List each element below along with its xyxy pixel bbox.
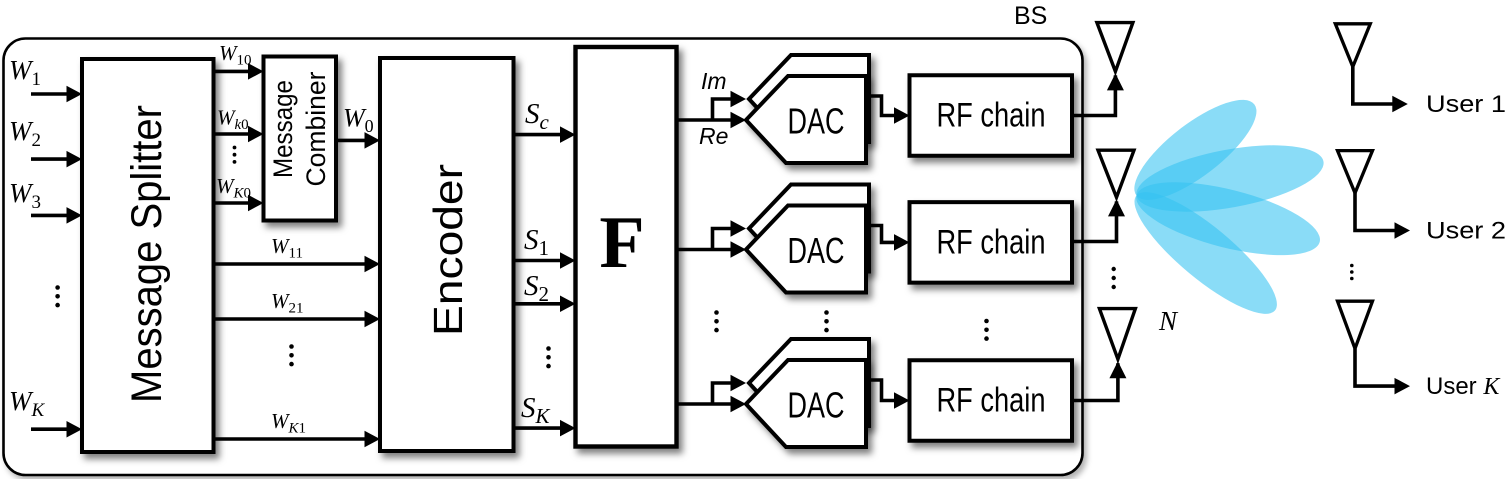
label S_K: [521, 392, 551, 428]
wire W_0 arrow: [336, 132, 380, 149]
svg-text:Combiner: Combiner: [301, 71, 331, 186]
label W_11: [271, 234, 303, 262]
dots DAC column: [824, 310, 829, 332]
svg-text:Re: Re: [699, 123, 728, 149]
wire F to DAC2 Re path: [677, 241, 746, 258]
wire W_21 arrow: [214, 311, 381, 328]
dots splitter-combiner: [233, 146, 237, 164]
svg-text:DAC: DAC: [788, 101, 845, 142]
dots RF chain column: [984, 319, 989, 341]
label W_K1: [271, 409, 306, 437]
dots splitter-encoder: [289, 344, 294, 366]
wire W_K0 arrow: [214, 195, 264, 212]
block Message Combiner: [264, 57, 337, 221]
wire F to DAC3 Im staircase: [713, 375, 747, 404]
label Im: [701, 68, 727, 94]
dots BS antennas: [1112, 267, 1116, 289]
DAC2 back shape: [749, 185, 869, 272]
svg-text:BS: BS: [1014, 2, 1047, 30]
wire RF chain 2 to antenna: [1072, 199, 1125, 241]
block precoder F: [576, 47, 677, 447]
block RF chain 1: [910, 75, 1073, 156]
svg-text:RF chain: RF chain: [937, 382, 1046, 420]
label S_2: [524, 270, 549, 306]
label W_10: [219, 41, 252, 69]
label BS: [1014, 2, 1047, 30]
wire S_2 arrow: [514, 296, 576, 313]
wire W_11 arrow: [214, 256, 381, 273]
svg-text:DAC: DAC: [788, 385, 845, 426]
wire S_c arrow: [514, 126, 576, 143]
user antenna 2: [1338, 151, 1411, 239]
wire F to DAC1 Im staircase: [713, 91, 747, 120]
label S_1: [524, 224, 549, 260]
svg-text:N: N: [1158, 306, 1179, 336]
wire S_K arrow: [514, 420, 576, 437]
label W_K: [9, 386, 46, 421]
label User 2: [1426, 218, 1506, 245]
wire W_k0 arrow: [214, 126, 264, 143]
wire input W_K arrow: [31, 421, 82, 438]
dots users: [1350, 264, 1354, 281]
wire F to DAC2 Im staircase: [713, 220, 747, 249]
label W_k0: [217, 106, 249, 134]
svg-text:RF chain: RF chain: [937, 97, 1046, 135]
label W_2: [9, 116, 41, 151]
DAC1 front shape: [746, 76, 866, 163]
dots encoder-F: [546, 346, 551, 368]
svg-text:F: F: [599, 202, 644, 284]
user antenna K: [1338, 301, 1411, 394]
label W_21: [271, 289, 304, 317]
wire W_K1 arrow: [214, 431, 381, 448]
BS boundary rounded rectangle: [4, 39, 1083, 476]
DAC2 front shape: [746, 206, 866, 293]
svg-text:DAC: DAC: [788, 230, 845, 271]
DAC3 back shape: [749, 339, 869, 426]
label W_1: [9, 55, 41, 90]
wire DAC1 to RF chain 1: [866, 96, 910, 124]
user antenna 1: [1335, 24, 1408, 112]
svg-text:User K: User K: [1426, 373, 1501, 400]
wire RF chain 1 to antenna: [1072, 73, 1124, 115]
label User K: [1426, 373, 1501, 400]
BS antenna 3: [1099, 309, 1135, 360]
svg-text:User 2: User 2: [1426, 218, 1506, 245]
wire F to DAC3 Re path: [677, 396, 746, 413]
wire input W_2 arrow: [31, 151, 82, 168]
label Re: [699, 123, 728, 149]
wire DAC2 to RF chain 2: [866, 226, 910, 251]
block RF chain 2: [910, 202, 1073, 283]
svg-text:Im: Im: [701, 68, 727, 94]
label S_c: [525, 98, 550, 134]
dots DAC column input: [714, 310, 719, 332]
block Encoder: [380, 58, 514, 451]
wire DAC3 to RF chain 3: [866, 380, 910, 409]
label W_K0: [216, 174, 251, 202]
wire F to DAC1 Re path: [677, 112, 746, 129]
svg-text:Message: Message: [268, 80, 298, 178]
svg-text:Encoder: Encoder: [425, 164, 471, 336]
wire input W_3 arrow: [31, 207, 82, 224]
label N: [1158, 306, 1179, 336]
dots left inputs: [55, 285, 60, 307]
beam pattern: [1120, 84, 1329, 331]
DAC3 front shape: [746, 360, 866, 447]
label W_3: [9, 178, 41, 213]
block Message Splitter: [82, 59, 214, 452]
label W_0: [343, 104, 374, 137]
BS antenna 1: [1097, 23, 1133, 72]
DAC1 back shape: [749, 55, 869, 142]
svg-text:Message Splitter: Message Splitter: [123, 105, 171, 403]
BS antenna 2: [1098, 150, 1134, 197]
block RF chain 3: [910, 360, 1073, 441]
wire W_10 arrow: [214, 63, 264, 80]
svg-text:User 1: User 1: [1426, 91, 1506, 118]
wire S_1 arrow: [514, 252, 576, 269]
wire input W_1 arrow: [31, 86, 82, 103]
label User 1: [1426, 91, 1506, 118]
wire RF chain 3 to antenna: [1072, 361, 1126, 400]
svg-text:RF chain: RF chain: [937, 223, 1046, 261]
